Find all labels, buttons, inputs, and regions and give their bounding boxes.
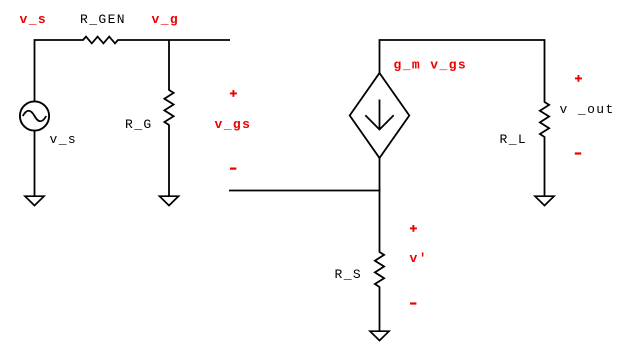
svg-text:R_L: R_L (500, 132, 528, 147)
label + (v_out plus) (575, 75, 582, 82)
wire: R_G bottom vertical (168, 125, 170, 198)
svg-text:v_s: v_s (50, 132, 78, 147)
wire: R_S bottom vertical (379, 287, 381, 333)
ground (below R_S) (370, 331, 389, 340)
wire: top-right horizontal (379, 39, 546, 41)
dependent current source g_m v_gs (350, 73, 410, 158)
resistor R_L (540, 102, 549, 137)
label - (v' minus) (410, 302, 416, 304)
ground (below R_L) (535, 196, 554, 205)
label - (v_gs minus) (230, 168, 236, 170)
svg-text:R_S: R_S (335, 267, 363, 282)
label - (v_out minus) (575, 152, 581, 154)
wire: diamond top vertical (379, 40, 381, 74)
label + (v_gs plus) (230, 90, 237, 97)
svg-text:v': v' (410, 251, 428, 266)
wire: top-left horizontal left of R_GEN (34, 39, 84, 41)
ground (below R_G) (160, 196, 179, 205)
svg-text:v_g: v_g (152, 12, 180, 27)
wire: R_L bottom vertical (544, 137, 546, 198)
svg-text:R_G: R_G (125, 117, 153, 132)
resistor R_GEN (83, 37, 118, 44)
wire: source bottom vertical (34, 131, 36, 198)
ground (below v_s) (25, 196, 44, 205)
wire: R_L top vertical (544, 40, 546, 103)
svg-text:R_GEN: R_GEN (80, 12, 126, 27)
resistor R_S (375, 252, 384, 287)
voltage source v_s (20, 101, 49, 130)
svg-text:g_m v_gs: g_m v_gs (394, 58, 468, 73)
svg-text:v_gs: v_gs (215, 117, 252, 132)
wire: mid horizontal (source node) (229, 190, 380, 192)
wire: diamond bottom vertical down to R_S (379, 158, 381, 253)
resistor R_G (164, 90, 173, 125)
label + (v' plus) (410, 225, 417, 232)
svg-text:v_s: v_s (20, 12, 48, 27)
wire: source top vertical (34, 40, 36, 102)
wire: top-left horizontal right of R_GEN to node v_g and open end (118, 39, 231, 41)
svg-text:v _out: v _out (560, 102, 615, 117)
wire: R_G top vertical from node v_g (168, 40, 170, 91)
